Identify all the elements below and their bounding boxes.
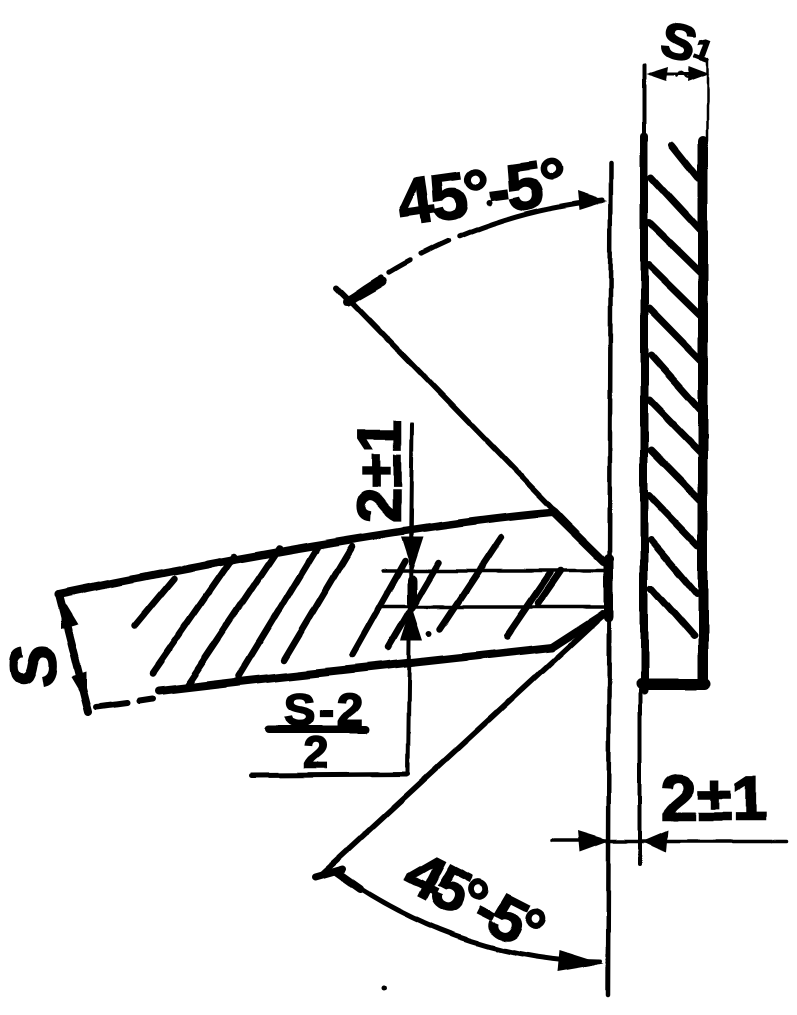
svg-text:2: 2 xyxy=(303,727,328,778)
svg-text:2±1: 2±1 xyxy=(661,762,767,834)
svg-text:2±1: 2±1 xyxy=(346,420,415,523)
svg-text:S: S xyxy=(0,645,69,688)
